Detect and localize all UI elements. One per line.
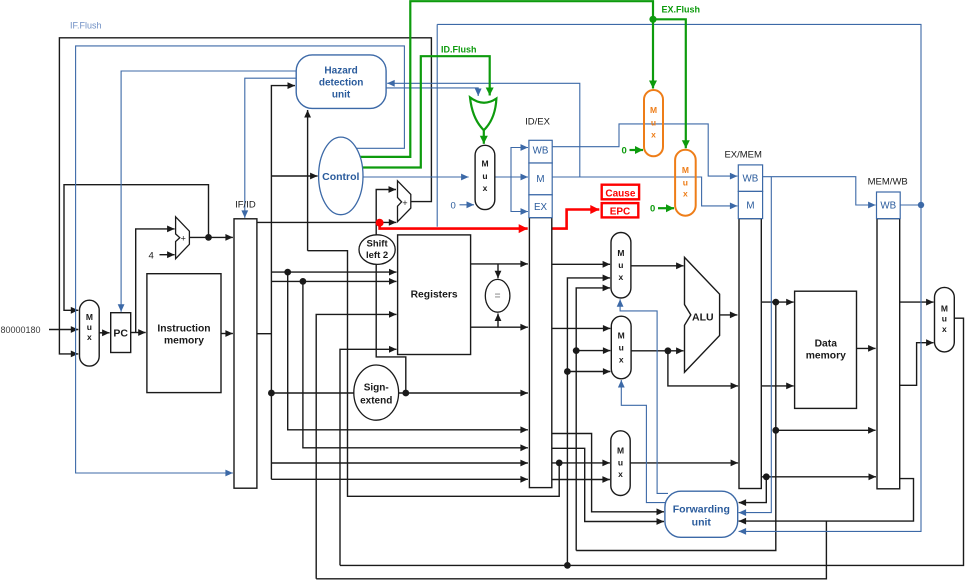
svg-text:EX/MEM: EX/MEM [724, 150, 762, 161]
wire read register 2 [271, 280, 396, 282]
wire zero mux out to ID/EX EX [511, 177, 528, 212]
wire ALU result forward wrap to EX forwarding line [576, 430, 776, 550]
wire ID/EX read data 1 to ALU mux A [552, 263, 610, 265]
wire WB mux forward vertical to mux A input 2 [567, 278, 610, 566]
mux flush WB (orange) [644, 90, 663, 156]
mux destination register [611, 431, 630, 496]
cause register [602, 185, 639, 200]
control unit ellipse [319, 137, 363, 215]
wire constant 4 to adder [160, 254, 175, 256]
wire ID/EX read data 2 to ALU mux B [552, 327, 611, 329]
register PC [111, 313, 131, 353]
wire instruction field vertical to hazard detection unit [271, 86, 295, 463]
wire ID/EX WB through flush mux 1 to EX/MEM WB [552, 124, 737, 176]
svg-text:EX: EX [534, 202, 548, 213]
wire sign-extend out branch up to shift left 2 [376, 265, 406, 394]
wire ID/EX.rt path from mux5 input junction [308, 251, 560, 497]
junction dot red exception tap [376, 219, 384, 227]
svg-text:IF/ID: IF/ID [235, 200, 256, 211]
svg-text:EPC: EPC [610, 207, 631, 218]
wire EX/MEM write data to data memory [761, 385, 793, 387]
svg-text:Forwarding: Forwarding [673, 504, 730, 516]
wire EX/MEM ALU result to data memory address [761, 301, 793, 303]
wire 80000180 to PC mux input 1 [49, 329, 78, 331]
wire EX/MEM rd branch to forwarding unit right [739, 477, 767, 503]
wire instruction field to control [271, 175, 317, 177]
pipeline register ID/EX EX box [529, 195, 552, 218]
wire OR gate output to zero mux [483, 130, 485, 144]
wire exception PC tap into ID/EX [380, 224, 528, 229]
wire MEM/WB ALU result to WB mux [900, 343, 934, 386]
wire ALU result bypass down to MEM/WB [776, 302, 876, 430]
svg-text:x: x [942, 324, 947, 334]
svg-text:Sign-: Sign- [364, 382, 389, 393]
wire data memory read data to MEM/WB [857, 347, 876, 349]
wire hazard IF/ID write enable [245, 78, 296, 218]
ALU [685, 257, 720, 372]
mux ALU input A [611, 233, 631, 299]
svg-text:M: M [536, 174, 544, 185]
junction dots black [205, 234, 779, 569]
svg-text:M: M [617, 248, 624, 258]
svg-text:WB: WB [533, 146, 549, 157]
wire rt field down to ID/EX y447.8 [303, 281, 528, 447]
adder PC+4 [176, 217, 190, 259]
pipeline register IF/ID [234, 200, 257, 489]
wire rd mux out to EX/MEM [630, 462, 738, 464]
wire PC out branch up to adder [136, 229, 175, 333]
junction dot blue MEM/WB WB [918, 202, 924, 208]
svg-text:Cause: Cause [605, 189, 635, 200]
wire top blue long run to MEM/WB WB junction and down to forwarding [437, 24, 921, 531]
svg-text:memory: memory [164, 335, 204, 346]
svg-text:Registers: Registers [411, 290, 458, 301]
svg-text:u: u [651, 118, 656, 128]
svg-text:Control: Control [322, 171, 359, 183]
mux flush M (orange) [675, 150, 696, 216]
wire EX.Flush branch to flush mux 2 [653, 19, 686, 148]
svg-text:ID.Flush: ID.Flush [441, 45, 477, 55]
wire read register 1 [271, 271, 396, 273]
svg-text:0: 0 [650, 204, 655, 215]
wire ID/EX rs to forwarding unit [552, 434, 664, 512]
svg-text:+: + [181, 233, 186, 243]
wire ID/EX rt to rd mux input 1 [552, 462, 610, 464]
wire instruction to ID/EX y479 [271, 463, 528, 479]
pipeline register MEM/WB WB box [877, 192, 901, 219]
wire zero mux out to ID/EX WB [511, 148, 528, 178]
svg-text:Hazard: Hazard [324, 65, 357, 76]
svg-text:u: u [942, 314, 947, 324]
svg-text:u: u [87, 322, 92, 332]
svg-text:x: x [619, 355, 624, 365]
svg-text:x: x [618, 469, 623, 479]
svg-text:extend: extend [360, 395, 392, 406]
wire zero constant into flush mux 1 [630, 149, 644, 151]
mux control zero (stall/flush) [475, 145, 495, 209]
wire EX/MEM forward vertical to mux A input 3 [576, 288, 610, 551]
wire PC+4 loop to PC mux input 0 [64, 185, 209, 311]
mux writeback [935, 287, 955, 352]
mux ALU input B [611, 316, 631, 379]
wire EX/MEM forward branch to mux B input 2 [576, 350, 610, 352]
hazard detection unit [296, 55, 386, 109]
wire ID/EX rt to forwarding unit [552, 448, 664, 521]
svg-text:M: M [617, 446, 624, 456]
wire ID/EX M through flush mux 2 to EX/MEM M [552, 177, 737, 206]
pipeline register ID/EX M box [529, 163, 552, 195]
wire MEM/WB rd wrap to write register [316, 521, 826, 579]
equality comparator [485, 279, 510, 312]
svg-text:u: u [618, 458, 623, 468]
OR gate [470, 97, 496, 130]
svg-text:+: + [402, 198, 407, 208]
svg-text:memory: memory [806, 351, 846, 362]
wire top blue long run down to exception PC line [436, 24, 438, 226]
svg-text:M: M [86, 312, 93, 322]
svg-text:M: M [618, 331, 625, 341]
svg-text:x: x [619, 272, 624, 282]
svg-text:80000180: 80000180 [1, 325, 41, 335]
svg-text:x: x [683, 189, 688, 199]
svg-text:PC: PC [113, 328, 128, 340]
svg-text:u: u [482, 171, 487, 181]
wire PC mux out to PC [99, 332, 109, 334]
wire control out to zero mux [363, 176, 469, 178]
svg-text:MEM/WB: MEM/WB [868, 177, 908, 188]
register file Registers [398, 235, 471, 355]
wire MEM/WB rd to forwarding unit right [739, 479, 914, 521]
svg-text:x: x [651, 130, 656, 140]
mux PC source [80, 300, 100, 366]
data memory [795, 291, 857, 408]
svg-text:x: x [483, 183, 488, 193]
svg-text:M: M [682, 165, 689, 175]
wire instruction bus IF/ID to branch adder bottom input [257, 221, 396, 223]
forwarding unit [665, 491, 738, 537]
pipeline register EX/MEM M box [738, 191, 762, 218]
wire shift left 2 out to branch adder top input [376, 190, 396, 235]
wire adder out to IF/ID with junction [189, 236, 233, 238]
wire write register number from bottom wrap [316, 314, 396, 578]
pipeline register EX/MEM WB box [738, 165, 762, 192]
svg-text:=: = [495, 291, 501, 302]
wire mux B out to ALU [631, 350, 684, 352]
wire read data 1 to ID/EX [471, 263, 528, 265]
wire forwarding unit to ALU mux B select [621, 380, 670, 503]
svg-text:0: 0 [622, 146, 627, 157]
wire branch target wrap (adder out, up over top, down left frame to PC mux input 2) [59, 38, 431, 354]
pipeline register MEM/WB black column [868, 177, 908, 489]
wire MEM/WB WB out to junction [900, 204, 921, 206]
wire WB mux out wrap around bottom to write data [340, 318, 964, 565]
junction dot green EX.Flush [649, 16, 656, 23]
svg-text:0: 0 [451, 201, 456, 212]
wire sign-extend out to ID/EX [399, 392, 528, 394]
pipeline register EX/MEM black column [724, 150, 762, 489]
svg-text:IF.Flush: IF.Flush [70, 21, 102, 31]
adder branch target [398, 181, 411, 222]
wire hazard PCWrite to PC [121, 71, 296, 312]
wire mux B out branch down to EX/MEM write data [668, 351, 738, 386]
wire IF.Flush from control around top-left to IF/ID flush [76, 46, 405, 473]
wire MEM/WB read data to WB mux [900, 301, 934, 303]
wire write data from WB mux wrap [340, 349, 397, 565]
wire read data 2 to ID/EX [471, 326, 528, 328]
instruction memory [147, 274, 221, 393]
wire instruction out of IF/ID [257, 333, 271, 335]
svg-text:x: x [87, 332, 92, 342]
svg-text:u: u [618, 260, 623, 270]
wire rs field down to ID/EX y429.8 [288, 272, 528, 430]
wire immediate to sign-extend [271, 392, 354, 394]
wire zero constant into zero mux [460, 204, 475, 206]
svg-text:detection: detection [319, 77, 363, 88]
shift left 2 ellipse [359, 235, 395, 265]
wire EX/MEM rd to MEM/WB [761, 476, 876, 478]
wire WB mux forward branch to mux B input 3 [567, 371, 610, 373]
svg-text:Shift: Shift [367, 238, 389, 249]
wire hazard stall to OR gate left input [386, 88, 478, 96]
wire PC out to instruction memory [131, 332, 146, 334]
wire ALU result to EX/MEM [720, 314, 738, 316]
svg-text:unit: unit [332, 89, 351, 100]
wire read data 2 tap up into equality comparator [497, 314, 499, 328]
wire instruction to ID/EX y463 [271, 462, 528, 464]
svg-text:EX.Flush: EX.Flush [662, 5, 701, 15]
svg-text:4: 4 [149, 251, 154, 262]
svg-text:u: u [683, 178, 688, 188]
wire ID/EX rd to rd mux input 2 [552, 479, 610, 481]
svg-text:M: M [481, 159, 488, 169]
wire zero mux out to ID/EX M [495, 176, 528, 178]
svg-text:unit: unit [692, 517, 712, 529]
wire mux A out to ALU [631, 265, 684, 267]
svg-text:WB: WB [880, 201, 896, 212]
wire ID/EX.MemRead up to hazard detection [387, 83, 580, 177]
svg-text:Data: Data [815, 339, 838, 350]
svg-text:WB: WB [743, 174, 759, 185]
svg-text:ALU: ALU [692, 312, 714, 324]
svg-text:M: M [650, 105, 657, 115]
wire forwarding unit to ALU mux A select [620, 299, 668, 493]
wire EX/MEM WB tee down to forwarding unit [739, 177, 772, 513]
wire ID/EX.rt up into hazard detection bottom [307, 110, 309, 251]
wire EX/MEM WB to MEM/WB WB [763, 177, 876, 205]
wire instruction memory out to IF/ID [221, 333, 233, 335]
pipeline register ID/EX black column [525, 117, 552, 488]
svg-text:M: M [941, 304, 948, 314]
wire read data 1 tap down into equality comparator [497, 264, 499, 278]
wire exception PC from ID/EX to EPC [552, 210, 599, 229]
svg-text:ID/EX: ID/EX [525, 117, 550, 128]
svg-text:M: M [746, 200, 754, 211]
wire zero constant into flush mux 2 [658, 207, 674, 209]
wire ID.Flush from control to OR gate right input [360, 56, 490, 167]
svg-text:u: u [619, 343, 624, 353]
sign-extend ellipse [354, 365, 399, 420]
pipeline register ID/EX WB box [529, 140, 552, 163]
EPC register [602, 203, 639, 217]
svg-text:Instruction: Instruction [157, 323, 210, 334]
wire EX.Flush from control over the top to flush mux 1 [359, 1, 653, 157]
svg-text:left 2: left 2 [366, 250, 388, 261]
